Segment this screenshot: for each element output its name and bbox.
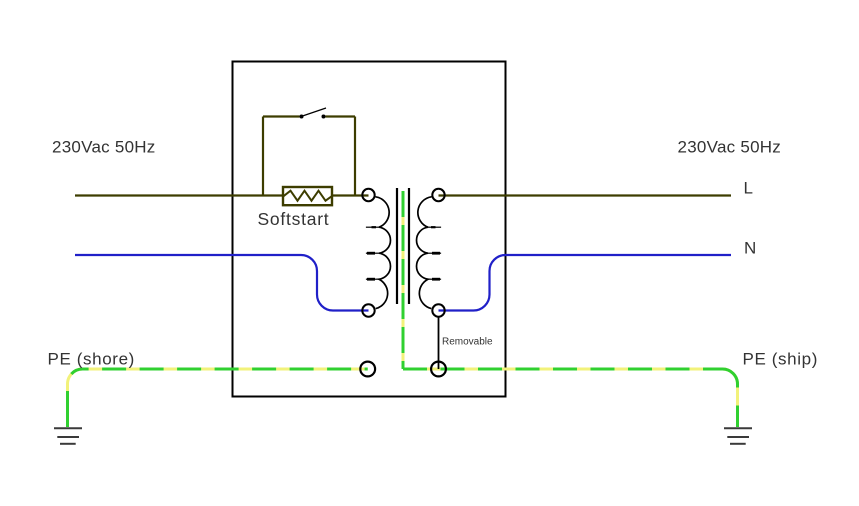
primary tick 1 xyxy=(366,226,379,228)
primary tick 3 xyxy=(366,278,379,280)
secondary tick 3 xyxy=(428,278,441,280)
secondary tap dot 2 xyxy=(432,252,440,255)
wire L shore xyxy=(75,194,369,196)
switch S1 blade xyxy=(303,108,327,116)
svg-text:PE (shore): PE (shore) xyxy=(48,350,135,369)
resistor R1 zigzag xyxy=(284,191,332,201)
node PE shore terminal xyxy=(360,362,375,377)
node secondary bottom terminal xyxy=(432,304,444,316)
primary tick 2 xyxy=(366,252,379,254)
wire bypass top xyxy=(263,115,355,117)
resistor R1 softstart body xyxy=(283,187,332,205)
primary tap dot 1 xyxy=(372,226,377,228)
removable link xyxy=(438,317,440,369)
svg-text:Removable: Removable xyxy=(442,337,493,348)
switch S1 contact right xyxy=(322,115,326,119)
primary tap dot 2 xyxy=(367,252,375,255)
svg-text:230Vac 50Hz: 230Vac 50Hz xyxy=(52,138,156,157)
wire N ship xyxy=(439,255,732,311)
switch S1 contact left xyxy=(300,115,304,119)
wire L ship xyxy=(439,194,732,196)
wire PE ship (green dashes elbow) xyxy=(723,369,738,427)
transformer T1 shield (yellow base) xyxy=(402,191,405,369)
wire PE shore (green dashes horizontal) xyxy=(83,368,368,371)
primary tap dot 3 xyxy=(367,278,375,281)
transformer T1 primary winding xyxy=(376,197,391,309)
node PE ship terminal xyxy=(431,362,446,377)
svg-text:Softstart: Softstart xyxy=(258,209,330,229)
node secondary top terminal xyxy=(432,189,444,201)
transformer T1 shield (green dashes) xyxy=(402,191,405,369)
ground shore xyxy=(54,428,82,444)
secondary tap dot 3 xyxy=(432,278,440,281)
node primary top terminal xyxy=(362,189,374,201)
svg-text:PE (ship): PE (ship) xyxy=(743,350,819,369)
wire PE ship (yellow base) xyxy=(403,369,738,427)
enclosure box xyxy=(233,62,506,397)
wire bypass left vertical xyxy=(262,117,264,196)
secondary tick 2 xyxy=(428,252,441,254)
svg-text:N: N xyxy=(744,239,756,258)
wire N shore xyxy=(75,255,369,311)
svg-text:230Vac 50Hz: 230Vac 50Hz xyxy=(678,138,782,157)
wire PE shore (yellow base) xyxy=(68,369,368,427)
wire PE shore (green dashes vertical) xyxy=(68,369,83,427)
transformer T1 core xyxy=(397,188,409,304)
secondary tap dot 1 xyxy=(431,226,436,228)
ground ship xyxy=(724,428,752,444)
transformer T1 secondary winding xyxy=(417,197,432,309)
svg-text:L: L xyxy=(744,179,753,198)
wire PE ship (green dashes horizontal) xyxy=(403,368,723,371)
node primary bottom terminal xyxy=(362,304,374,316)
secondary tick 1 xyxy=(428,226,441,228)
wire bypass right vertical xyxy=(354,117,356,196)
